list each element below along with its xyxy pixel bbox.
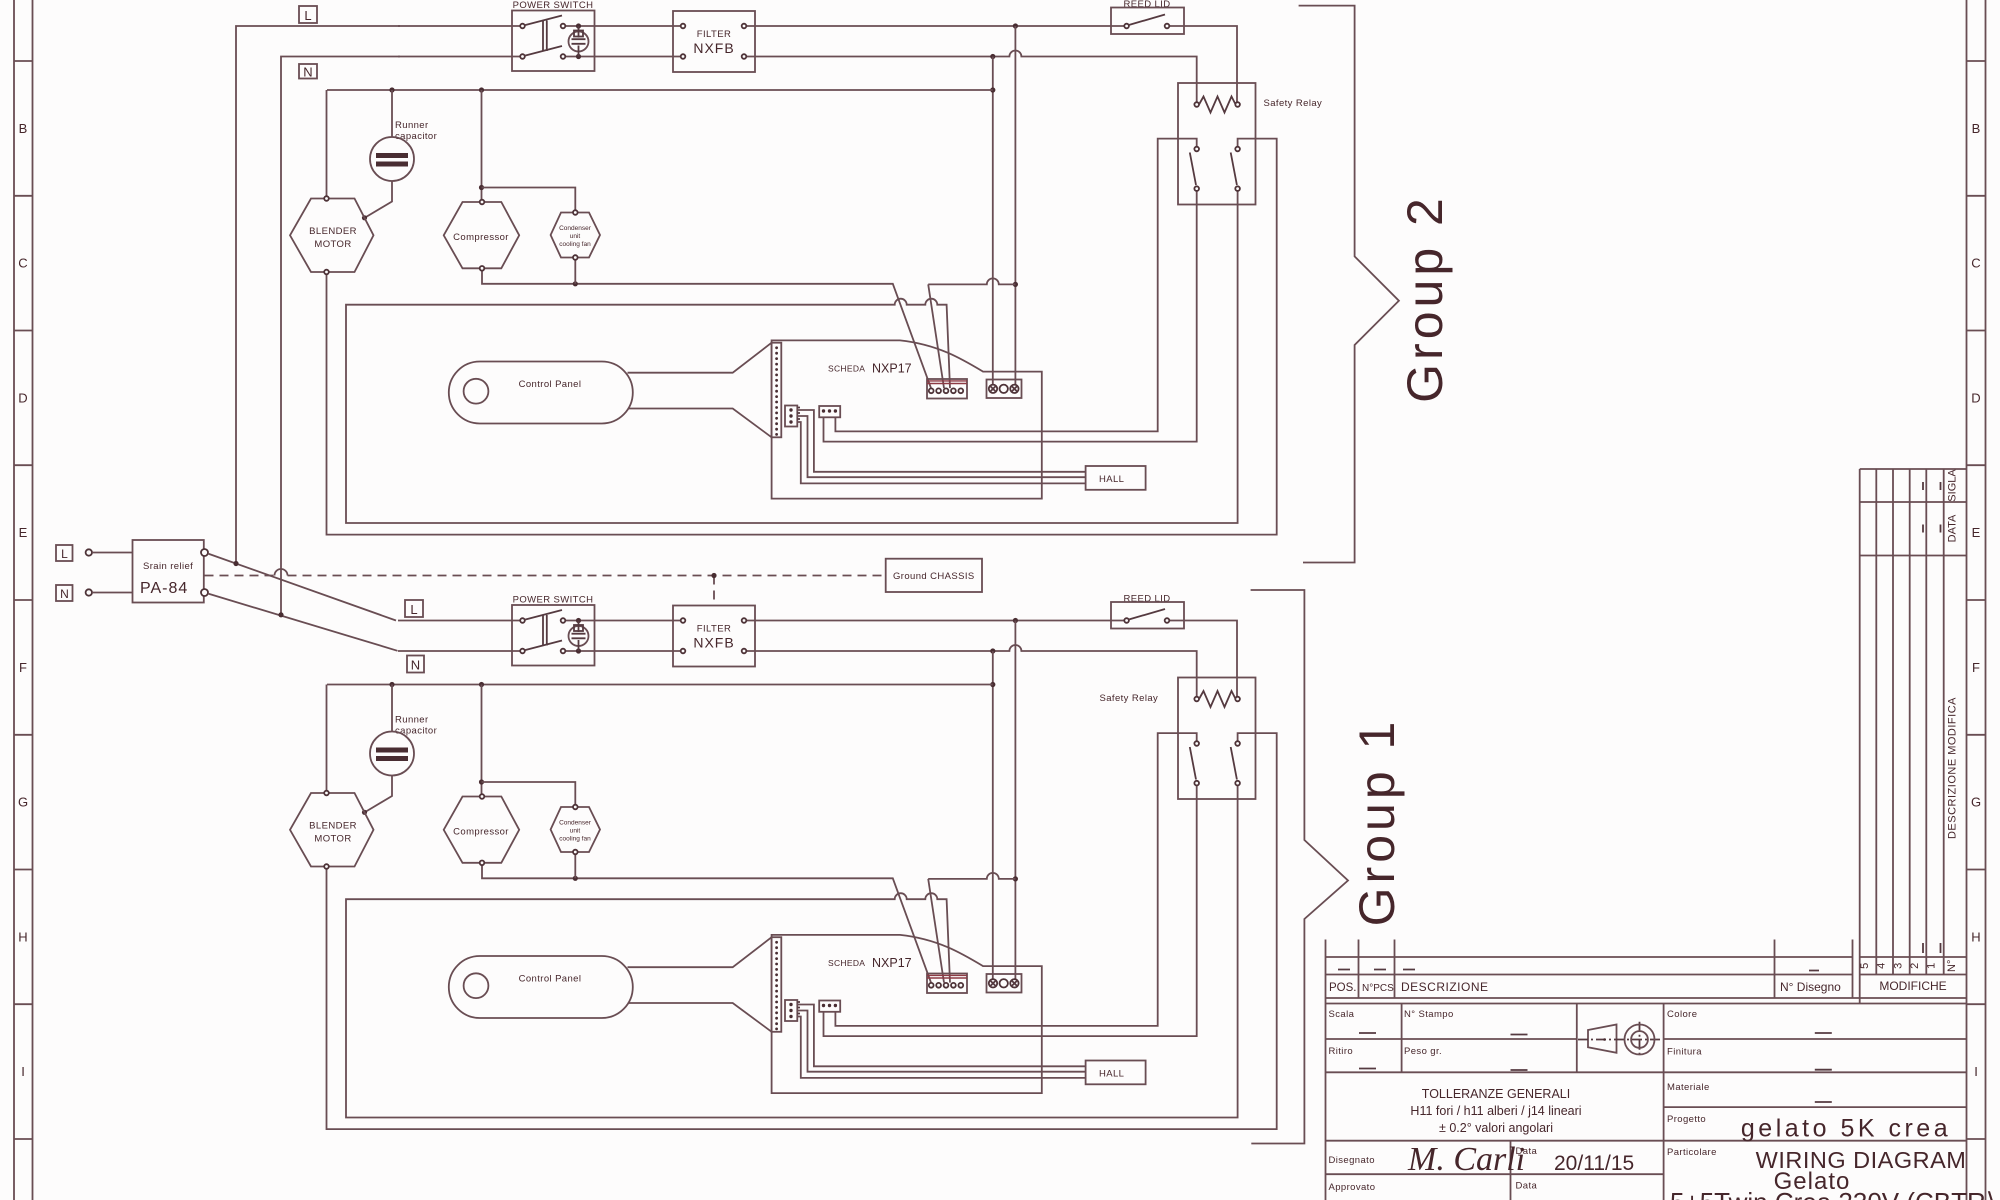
svg-text:B: B xyxy=(19,121,28,136)
svg-text:I: I xyxy=(21,1064,25,1079)
node tap L group2 xyxy=(233,561,238,566)
svg-text:Progetto: Progetto xyxy=(1667,1114,1706,1125)
tolleranze text xyxy=(1410,1087,1581,1135)
svg-text:B: B xyxy=(1972,121,1981,136)
svg-text:Ground CHASSIS: Ground CHASSIS xyxy=(893,571,975,582)
svg-text:DATA: DATA xyxy=(1947,514,1959,542)
brace group 1 xyxy=(1251,590,1348,1144)
svg-text:H11 fori / h11 alberi / j14 li: H11 fori / h11 alberi / j14 lineari xyxy=(1410,1104,1581,1118)
group 2 circuit xyxy=(290,0,1277,535)
svg-text:PA-84: PA-84 xyxy=(140,580,188,597)
svg-text:G: G xyxy=(1971,795,1981,810)
svg-text:POS.: POS. xyxy=(1329,982,1356,994)
svg-text:N° Stampo: N° Stampo xyxy=(1404,1009,1454,1020)
svg-text:F: F xyxy=(19,660,27,675)
svg-text:Materiale: Materiale xyxy=(1667,1082,1710,1093)
svg-text:N: N xyxy=(60,587,69,601)
svg-text:DESCRIZIONE: DESCRIZIONE xyxy=(1401,980,1489,994)
svg-text:Safety Relay: Safety Relay xyxy=(1264,98,1323,109)
svg-text:Group 1: Group 1 xyxy=(1349,718,1405,927)
svg-text:D: D xyxy=(1971,390,1980,405)
node N input terminal xyxy=(56,585,133,601)
svg-text:H: H xyxy=(18,929,27,944)
svg-text:20/11/15: 20/11/15 xyxy=(1554,1152,1634,1175)
svg-text:5: 5 xyxy=(1859,963,1871,969)
svg-text:Group 2: Group 2 xyxy=(1397,194,1453,403)
node L input terminal xyxy=(56,545,133,561)
frame left border xyxy=(14,0,33,1200)
svg-text:I: I xyxy=(1974,1064,1978,1079)
projection symbol xyxy=(1578,1022,1662,1057)
wire ground stub to filter group1 xyxy=(713,576,715,606)
svg-text:C: C xyxy=(18,256,27,271)
svg-text:Srain relief: Srain relief xyxy=(143,561,193,572)
svg-text:G: G xyxy=(18,795,28,810)
svg-text:DESCRIZIONE MODIFICA: DESCRIZIONE MODIFICA xyxy=(1947,697,1959,839)
svg-text:M. Carli: M. Carli xyxy=(1407,1141,1525,1178)
svg-text:N°: N° xyxy=(1946,960,1958,972)
svg-text:Colore: Colore xyxy=(1667,1009,1697,1020)
svg-text:5+5Twin Crea 230V (CBTR⟩: 5+5Twin Crea 230V (CBTR⟩ xyxy=(1670,1187,1996,1200)
ground chassis box xyxy=(886,559,982,592)
svg-text:TOLLERANZE GENERALI: TOLLERANZE GENERALI xyxy=(1422,1087,1570,1101)
svg-text:Approvato: Approvato xyxy=(1329,1182,1376,1193)
svg-text:± 0.2° valori angolari: ± 0.2° valori angolari xyxy=(1439,1121,1553,1135)
brace group 2 xyxy=(1299,6,1399,563)
svg-text:H: H xyxy=(1971,929,1980,944)
group 1 circuit xyxy=(290,594,1277,1130)
svg-text:N° Disegno: N° Disegno xyxy=(1780,980,1841,994)
svg-text:Ritiro: Ritiro xyxy=(1329,1046,1354,1057)
node N label group1 xyxy=(407,656,424,673)
svg-text:Finitura: Finitura xyxy=(1667,1047,1702,1058)
wire diagonal L to group1 xyxy=(208,554,396,621)
wire ground chassis dashed xyxy=(205,569,886,578)
svg-text:1: 1 xyxy=(1926,963,1938,969)
svg-text:L: L xyxy=(61,547,68,561)
node L label group2 xyxy=(299,6,317,23)
wire L feed group2 xyxy=(236,26,400,563)
svg-text:Peso gr.: Peso gr. xyxy=(1404,1046,1442,1057)
wire N feed group2 xyxy=(281,57,400,615)
strain relief PA-84 xyxy=(133,540,209,603)
svg-text:2: 2 xyxy=(1909,963,1921,969)
svg-text:gelato 5K crea: gelato 5K crea xyxy=(1741,1115,1951,1143)
svg-text:Disegnato: Disegnato xyxy=(1329,1155,1375,1166)
svg-text:C: C xyxy=(1971,256,1980,271)
svg-text:N: N xyxy=(411,658,420,673)
svg-text:SIGLA: SIGLA xyxy=(1947,469,1959,502)
svg-text:F: F xyxy=(1972,660,1980,675)
wire diagonal N to group1 xyxy=(208,594,398,651)
revision table modifiche strip xyxy=(1859,469,1967,1004)
svg-text:Data: Data xyxy=(1516,1181,1538,1192)
svg-text:D: D xyxy=(18,390,27,405)
svg-text:L: L xyxy=(410,602,417,617)
svg-text:Particolare: Particolare xyxy=(1667,1147,1717,1158)
svg-text:MODIFICHE: MODIFICHE xyxy=(1879,979,1946,993)
node N label group2 xyxy=(299,64,317,80)
svg-text:Scala: Scala xyxy=(1329,1009,1355,1020)
node L label group1 xyxy=(405,600,423,617)
svg-text:N°PCS: N°PCS xyxy=(1362,983,1394,994)
svg-text:4: 4 xyxy=(1876,963,1888,969)
svg-text:E: E xyxy=(1972,525,1981,540)
frame right border xyxy=(1967,0,1986,1200)
svg-text:N: N xyxy=(303,65,312,80)
svg-text:Safety Relay: Safety Relay xyxy=(1100,693,1159,704)
svg-text:E: E xyxy=(19,525,28,540)
node tap N group2 xyxy=(278,612,283,617)
svg-text:3: 3 xyxy=(1892,963,1904,969)
title block xyxy=(1326,940,1996,1200)
svg-text:L: L xyxy=(304,8,311,23)
